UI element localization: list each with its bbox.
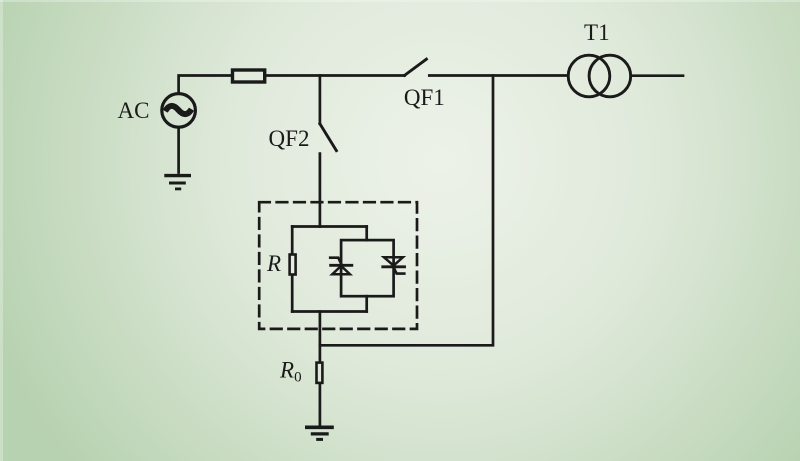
svg-text:QF1: QF1 [404,85,445,110]
wire: loop left branch lower segment [291,276,294,312]
wire: loop right branch upper stub to thyristor block [365,227,368,241]
wire: QF2 lower lead into damping module [319,154,322,227]
svg-text:QF2: QF2 [269,126,310,151]
svg-text:T1: T1 [584,20,610,45]
resistor R0 [317,363,323,383]
wire: QF2 branch upper lead [319,76,322,124]
resistor R [290,255,296,275]
wire: loop left branch upper segment [291,227,294,255]
wire: QF1 right contact to transformer T1 [429,74,568,77]
breaker QF2 (open blade) [320,124,337,151]
wire: loop bottom edge [292,310,367,313]
svg-text:R: R [266,251,281,276]
wire: loop bottom to R0 [319,312,322,362]
wire: series resistor to QF1 left contact [266,74,404,77]
resistor (series, unlabeled) [233,70,265,82]
ground (below R0) [305,427,334,439]
thyristor V2 (right, conducts downward) [383,257,405,273]
wire: parallel loop top edge [292,225,367,228]
wire: loop right branch lower stub from thyristor block [365,296,368,311]
wire: AC source bottom lead [177,127,180,172]
wire: transformer T1 right lead [631,74,683,77]
wire: R0 to earth [319,384,322,425]
AC source (circle with sine) [162,94,196,128]
svg-text:AC: AC [118,98,150,123]
thyristor block loop (anti-parallel pair frame) [341,240,394,296]
wire: AC source top lead and top bus to series resistor [179,76,231,94]
thyristor V1 (left, conducts upward) [330,258,352,275]
dashed enclosure (damping module boundary) [259,202,417,329]
wire: right branch from top bus down and across to R0 node [320,76,493,346]
breaker QF1 (open blade) [405,59,427,75]
ground (below AC source) [164,176,191,189]
transformer T1 (two overlapping circles) [568,55,631,97]
